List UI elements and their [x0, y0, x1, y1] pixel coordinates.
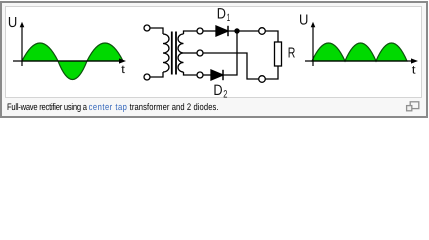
svg-text:t: t [121, 64, 126, 76]
svg-text:D: D [213, 82, 222, 99]
svg-text:2: 2 [223, 88, 227, 100]
svg-text:D: D [217, 6, 226, 23]
svg-text:t: t [412, 65, 417, 77]
svg-text:U: U [299, 13, 308, 29]
svg-text:R: R [288, 45, 296, 61]
svg-text:1: 1 [227, 12, 231, 24]
svg-text:U: U [8, 15, 17, 31]
